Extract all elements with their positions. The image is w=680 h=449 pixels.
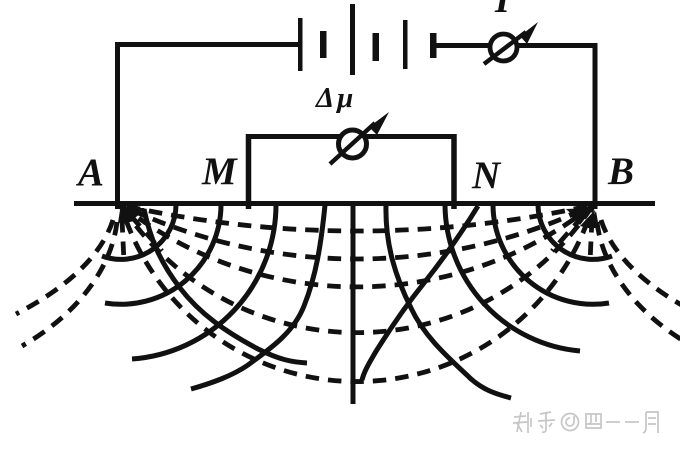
short dashed ray from A steeper bbox=[122, 219, 124, 262]
current flow line outer-right o2 bbox=[597, 222, 680, 346]
current flow line f3 (dashed, A to B) bbox=[121, 205, 593, 287]
equipotential solid arc around A, r=155 bbox=[132, 205, 276, 359]
equipotential solid arc around B, r=55 bbox=[538, 205, 612, 259]
current flow line outer-left o2 bbox=[22, 222, 117, 346]
short dashed ray into B bbox=[552, 216, 583, 251]
ammeter A1 arrow bbox=[484, 22, 538, 64]
current flow line f2 (dashed, A to B) bbox=[121, 205, 593, 259]
ammeter A1 circle bbox=[490, 34, 517, 61]
current flow line outer-left o1 bbox=[16, 220, 113, 314]
arrowhead cluster at A (current leaving) bbox=[118, 206, 145, 224]
deep solid current sweep from mid-right down-left bbox=[362, 206, 478, 380]
wire: MN loop right vertical (N electrode wire) bbox=[451, 134, 457, 209]
current flow line f4 (dashed, A to B) bbox=[121, 205, 593, 333]
short dashed ray from A bbox=[131, 216, 162, 251]
wire: left vertical wire from top corner down to ground at A bbox=[115, 42, 120, 209]
node: center equipotential vertical line bbox=[351, 205, 356, 404]
watermark: zhihu @si-yi-yi-yue bbox=[513, 412, 658, 433]
equipotential solid arc around A, r=55 bbox=[102, 205, 176, 259]
svg-text:A: A bbox=[75, 151, 104, 194]
wire: MN loop left vertical (M electrode wire) bbox=[246, 134, 252, 209]
current flow line f5 (dashed, A to B, deepest) bbox=[121, 205, 593, 382]
deep solid current sweep from A down-right bbox=[144, 209, 307, 363]
wire: top-left horizontal from left corner to battery bbox=[115, 42, 298, 47]
voltmeter V1 circle bbox=[339, 130, 367, 158]
voltmeter V1 arrow bbox=[330, 112, 389, 164]
svg-text:I: I bbox=[494, 0, 511, 21]
equipotential solid arc around B, r=100 bbox=[493, 205, 609, 304]
deep solid equipotential curve left of center bbox=[191, 205, 325, 389]
current flow line f1 (dashed, A to B, shallow) bbox=[121, 205, 593, 231]
svg-text:B: B bbox=[607, 150, 634, 193]
battery BT1 bbox=[298, 4, 437, 75]
short dashed ray into B steeper bbox=[590, 219, 592, 262]
svg-text:M: M bbox=[201, 150, 238, 193]
ground surface line bbox=[74, 201, 655, 206]
equipotential solid arc around B, r=148 bbox=[445, 205, 580, 351]
wire: right vertical wire from top corner down to ground at B bbox=[593, 43, 598, 209]
current flow line outer-right o1 bbox=[601, 220, 680, 314]
svg-text:Δμ: Δμ bbox=[315, 82, 356, 114]
arrowhead cluster at B (current arriving) bbox=[566, 207, 599, 229]
equipotential solid arc around A, r=100 bbox=[105, 205, 221, 304]
wire: from battery to ammeter bbox=[437, 43, 490, 48]
wire: MN loop top horizontal bbox=[246, 134, 456, 139]
svg-text:N: N bbox=[471, 154, 502, 197]
wire: from ammeter to top-right corner bbox=[518, 43, 598, 48]
deep solid equipotential curve right of center bbox=[386, 205, 511, 398]
